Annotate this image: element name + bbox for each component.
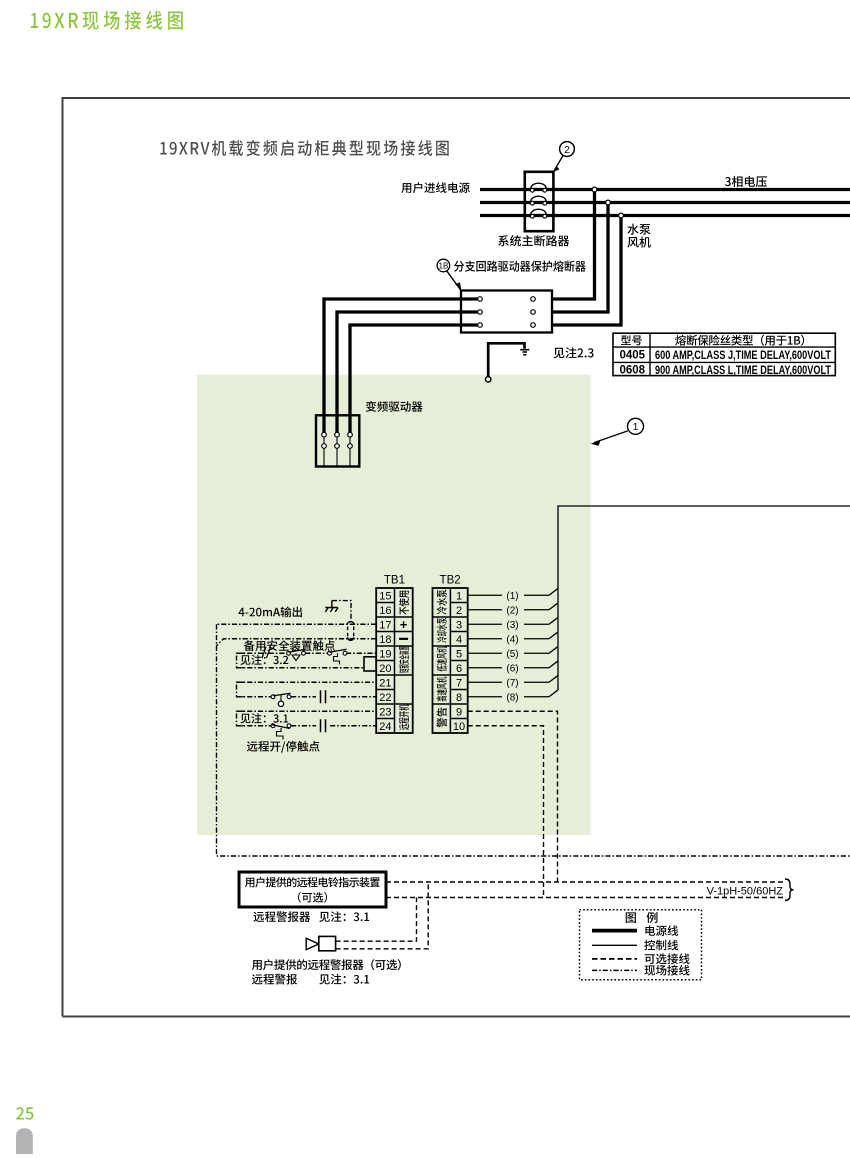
shield drain wire — [332, 601, 351, 621]
wire drop from L3 junction — [536, 216, 622, 326]
terminal block TB2 — [433, 588, 468, 733]
wire number label (4) — [506, 634, 518, 645]
legend box 图例 — [580, 910, 702, 980]
horn annunciator symbol — [306, 936, 335, 950]
leader line for callout 2 — [553, 155, 563, 172]
legend label 可选接线 — [645, 953, 690, 964]
svg-text:(4): (4) — [506, 634, 518, 645]
wire drop from L1 junction — [536, 190, 595, 300]
diagram title 19XRV机载变频启动柜典型现场接线图 — [160, 140, 448, 156]
svg-text:(6): (6) — [506, 663, 518, 674]
TB2 pin 10 — [453, 721, 465, 733]
control wire TB2-6 to (6) — [468, 661, 558, 668]
label V-1pH-50/60HZ — [707, 885, 784, 897]
VFD terminal pair 3 — [348, 432, 353, 466]
TB1 pin 15 — [379, 590, 391, 602]
svg-text:TB2: TB2 — [440, 575, 461, 587]
svg-text:5: 5 — [456, 648, 462, 660]
TB1 pin 18 — [379, 634, 391, 646]
chassis ground symbol — [325, 601, 338, 612]
breaker pole 3 — [530, 209, 546, 218]
optional wire horn upper — [336, 898, 417, 942]
label 远程警报 见注：3.1 — [252, 974, 369, 985]
label 水泵风机 — [627, 224, 650, 248]
wire phase L1 — [480, 188, 850, 191]
callout circle 1B — [437, 259, 450, 272]
TB1 pin 19 — [379, 648, 391, 660]
svg-text:TB1: TB1 — [384, 575, 405, 587]
wire number label (5) — [506, 649, 518, 660]
note bracket 3.2 — [237, 653, 246, 668]
control wire TB2-5 to (5) — [468, 646, 558, 653]
TB2 pin 7 — [456, 677, 462, 689]
wire drop from L2 junction — [536, 203, 609, 313]
TB2 pin 3 — [456, 619, 462, 631]
TB1 pin 22 — [379, 692, 391, 704]
control wire TB2-3 to (3) — [468, 617, 558, 624]
leader arrow for callout 1 — [591, 431, 628, 446]
TB2 pin 2 — [456, 605, 462, 617]
cable shield symbol — [347, 622, 355, 641]
terminal block TB1 — [376, 588, 413, 733]
page number 25 — [16, 1107, 33, 1120]
svg-text:3: 3 — [456, 619, 462, 631]
wire fuse2 to VFD — [337, 312, 478, 433]
svg-text:1B: 1B — [439, 262, 449, 271]
ground terminal node — [486, 377, 491, 382]
table cell 900 AMP — [655, 365, 831, 377]
TB2 label 冷水泵 — [437, 590, 447, 615]
page title 19XR现场接线图 — [31, 11, 183, 30]
outer border frame — [63, 98, 850, 1017]
svg-text:19: 19 — [379, 648, 391, 660]
label 远程开/停触点 — [247, 741, 320, 753]
junction node L2 — [606, 200, 611, 205]
field wire TB1-20 — [237, 667, 365, 669]
label 见注：3.1 — [241, 713, 289, 723]
field wire trunk down-left — [217, 624, 850, 856]
wire number label (2) — [506, 605, 518, 616]
TB1 label 远程开机 — [399, 704, 409, 730]
TB2 label 冷却水泵 — [437, 618, 447, 643]
label 系统主断路器 — [498, 235, 569, 246]
svg-text:(7): (7) — [506, 678, 518, 689]
label 4-20mA输出 — [239, 607, 302, 618]
svg-text:20: 20 — [379, 663, 391, 675]
VFD box 变频驱动器 — [316, 415, 359, 466]
svg-text:6: 6 — [456, 663, 462, 675]
label 见注2.3 — [554, 347, 594, 358]
pair bracket 21-22 — [237, 682, 246, 697]
circuit breaker box 系统主断路器 — [525, 172, 554, 231]
wire number label (8) — [506, 692, 518, 703]
svg-text:18: 18 — [379, 634, 391, 646]
svg-text:(1): (1) — [506, 591, 518, 602]
manual switch contact — [271, 724, 291, 740]
callout circle 2 — [560, 142, 575, 157]
jumper 19-20 — [364, 657, 376, 671]
control wire TB2-2 to (2) — [468, 603, 558, 610]
table header 熔断保险丝类型（用于1B） — [675, 335, 804, 346]
svg-text:(8): (8) — [506, 692, 518, 703]
TB1 label + — [400, 617, 408, 632]
TB2 label 高速风机 — [437, 677, 447, 702]
svg-text:1: 1 — [456, 590, 462, 602]
TB2 label 警告 — [437, 708, 447, 728]
optional wire bell to V-1ph lower — [386, 897, 785, 899]
svg-text:V-1pH-50/60HZ: V-1pH-50/60HZ — [707, 885, 784, 897]
svg-text:0608: 0608 — [620, 365, 646, 377]
TB2 pin 6 — [456, 663, 462, 675]
TB1 label 链锁安全装置 — [399, 646, 409, 673]
terminal block TB1 label — [384, 575, 405, 587]
label 用户提供的远程电铃指示装置 — [245, 877, 380, 887]
wire phase L2 — [480, 201, 850, 204]
svg-text:(5): (5) — [506, 649, 518, 660]
TB1 pin 23 — [379, 706, 391, 718]
svg-text:9: 9 — [456, 706, 462, 718]
svg-text:24: 24 — [379, 721, 391, 733]
TB1 pin 17 — [379, 619, 391, 631]
TB2 pin 4 — [456, 634, 462, 646]
TB1 pin 20 — [379, 663, 391, 675]
table cell 600 AMP — [655, 350, 831, 362]
TB1 pin 24 — [379, 721, 391, 733]
optional wire bell to V-1ph upper — [386, 881, 785, 883]
control wire riser to chiller — [558, 506, 850, 690]
TB2 pin 8 — [456, 692, 462, 704]
TB2 label 低速风机 — [437, 647, 447, 672]
control wire TB2-1 to (1) — [468, 588, 558, 595]
fuse terminal left 1 — [478, 297, 483, 302]
svg-text:7: 7 — [456, 677, 462, 689]
svg-text:16: 16 — [379, 605, 391, 617]
legend power line sample — [592, 929, 637, 933]
svg-text:2: 2 — [456, 605, 462, 617]
fuse terminal left 2 — [478, 310, 483, 315]
control wire TB2-4 to (4) — [468, 632, 558, 639]
fuse terminal right 3 — [531, 323, 536, 328]
svg-text:21: 21 — [379, 677, 391, 689]
wire number label (3) — [506, 620, 518, 631]
svg-text:2: 2 — [564, 144, 570, 156]
legend field line sample — [592, 969, 637, 971]
VFD terminal pair 1 — [322, 432, 327, 466]
wire phase L3 — [480, 214, 850, 217]
ground wire — [488, 343, 524, 377]
legend label 电源线 — [645, 925, 678, 936]
earth ground symbol — [520, 350, 529, 355]
breaker pole 1 — [530, 183, 546, 192]
TB1 label 不使用 — [399, 591, 409, 615]
label 见注：3.2 — [241, 655, 289, 665]
field wire TB1-19 segments — [237, 652, 377, 654]
optional wire horn lower — [336, 882, 429, 949]
junction node L3 — [619, 213, 624, 218]
TB2 pin 1 — [456, 590, 462, 602]
brace for V-1pH — [785, 879, 794, 901]
svg-text:22: 22 — [379, 692, 391, 704]
control wire TB2-7 to (7) — [468, 675, 558, 682]
field wire TB1-24 segments — [237, 725, 377, 727]
label 远程警报器 见注：3.1 — [253, 911, 369, 922]
terminal block TB2 label — [440, 575, 461, 587]
label 用户提供的远程警报器（可选） — [252, 959, 401, 970]
label 分支回路驱动器保护熔断器 — [454, 261, 586, 272]
legend title 图 例 — [626, 912, 658, 923]
legend optional line sample — [592, 958, 637, 960]
pressure switch contact — [328, 649, 347, 664]
label （可选） — [298, 892, 327, 903]
VFD terminal pair 2 — [335, 432, 340, 466]
field wire TB1-17 (+) — [217, 623, 377, 625]
wire number label (7) — [506, 678, 518, 689]
leader line for callout 1B — [446, 270, 461, 291]
wire number label (1) — [506, 591, 518, 602]
optional wire TB2-9 — [468, 711, 558, 882]
wire number label (6) — [506, 663, 518, 674]
svg-text:1: 1 — [633, 421, 639, 433]
label 变频驱动器 — [366, 401, 423, 412]
legend label 控制线 — [644, 940, 678, 951]
field wire TB1-18 (−) — [217, 639, 377, 646]
TB2 pin 5 — [456, 648, 462, 660]
svg-text:10: 10 — [453, 721, 465, 733]
legend control line sample — [592, 944, 637, 946]
legend label 现场接线 — [644, 965, 689, 976]
fuse terminal right 1 — [531, 297, 536, 302]
note bracket 3.1 — [237, 711, 246, 726]
table cell 0405 — [620, 349, 646, 361]
page tab — [16, 1128, 33, 1154]
flow switch contact — [287, 649, 306, 660]
field wire TB1-23 — [237, 710, 377, 712]
svg-text:4: 4 — [456, 634, 462, 646]
label 3相电压 — [725, 176, 767, 187]
breaker pole 2 — [530, 196, 546, 205]
label 备用安全装置触点 — [244, 640, 335, 651]
wire fuse3 to VFD — [350, 325, 478, 433]
field wire TB1-21 — [237, 681, 377, 683]
control wire TB2-8 to (8) — [468, 690, 558, 697]
remote bell box — [239, 872, 386, 907]
NO contact 22 — [321, 690, 326, 703]
fuse terminal right 2 — [531, 310, 536, 315]
fuse box — [461, 291, 552, 333]
table cell 0608 — [620, 365, 646, 377]
svg-text:+: + — [400, 617, 408, 632]
svg-text:8: 8 — [456, 692, 462, 704]
svg-text:600 AMP,CLASS J,TIME DELAY,600: 600 AMP,CLASS J,TIME DELAY,600VOLT — [655, 350, 831, 362]
junction node L1 — [592, 187, 597, 192]
TB1 pin 21 — [379, 677, 391, 689]
TB1 pin 16 — [379, 605, 391, 617]
crossing tick marks — [262, 647, 271, 658]
optional wire TB2-10 — [468, 726, 544, 898]
TB1 label − — [399, 638, 408, 640]
svg-text:23: 23 — [379, 706, 391, 718]
wire fuse1 to VFD — [324, 299, 478, 433]
NO contact 24 — [321, 719, 326, 732]
callout circle 1 — [628, 418, 644, 434]
fuse terminal left 3 — [478, 323, 483, 328]
svg-text:15: 15 — [379, 590, 391, 602]
table header 型号 — [621, 335, 642, 345]
svg-text:17: 17 — [379, 619, 391, 631]
float switch contact — [271, 693, 291, 706]
TB2 pin 9 — [456, 706, 462, 718]
svg-text:(3): (3) — [506, 620, 518, 631]
field wire TB1-22 segments — [237, 696, 377, 698]
fuse table box — [613, 333, 835, 375]
svg-text:(2): (2) — [506, 605, 518, 616]
VFD cabinet shaded area (item 1) — [197, 375, 591, 835]
svg-text:900 AMP,CLASS L,TIME DELAY,600: 900 AMP,CLASS L,TIME DELAY,600VOLT — [655, 365, 831, 377]
label 用户进线电源 — [401, 182, 469, 193]
svg-text:0405: 0405 — [620, 349, 646, 361]
